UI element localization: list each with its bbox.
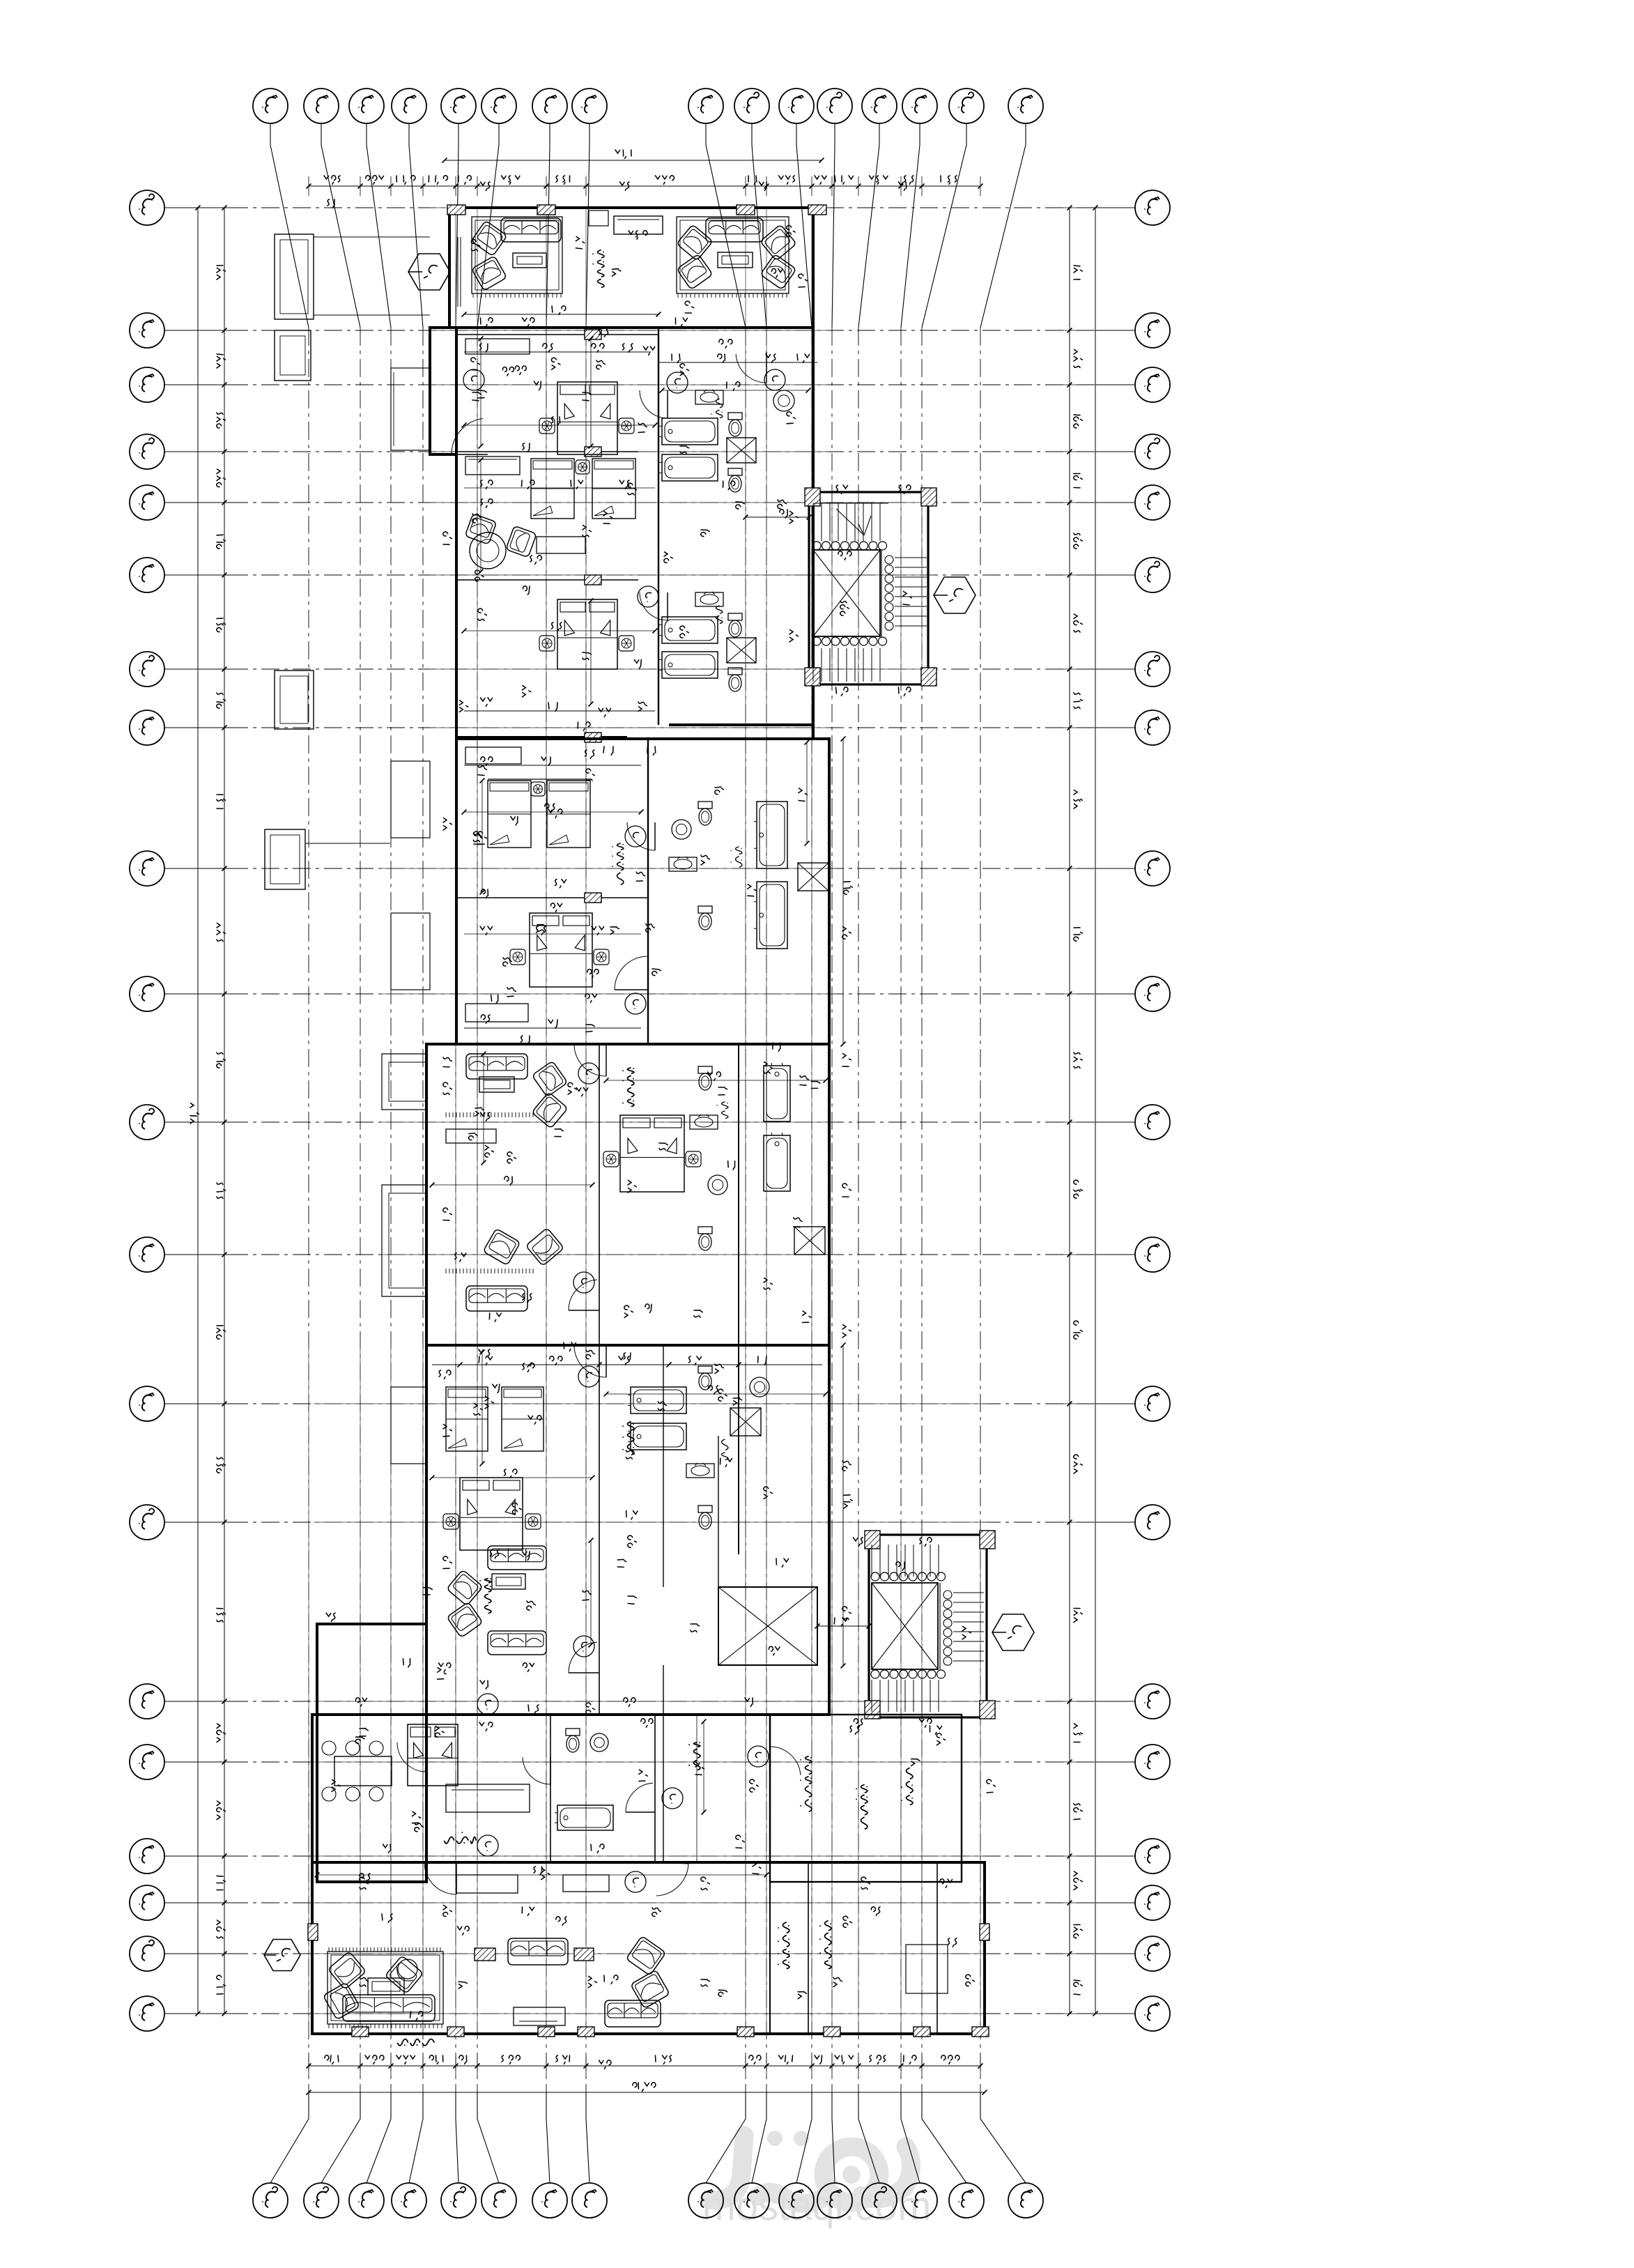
row leader right 1	[1095, 207, 1135, 208]
grid bubble column 9 (bottom)	[688, 2183, 723, 2218]
horizontal gridline row 7	[230, 668, 1095, 670]
bed lower suite1	[557, 599, 617, 669]
annotation extra 52	[833, 1977, 842, 1987]
long internal dim row (zone B)	[464, 487, 655, 489]
fill annotation	[471, 240, 479, 251]
bath strip suite3	[738, 1044, 739, 1345]
horizontal gridline row 10	[230, 993, 1095, 995]
corridor dim right	[842, 1183, 851, 1197]
planter connector row12	[305, 843, 390, 844]
row leader right 18	[1095, 1902, 1135, 1903]
dim value bottom 13	[904, 2055, 916, 2064]
gridline overlay	[858, 1535, 859, 2034]
reception sofa bottom	[343, 1995, 435, 2021]
dim 5.22	[719, 339, 732, 348]
row leader left 18	[164, 1902, 230, 1903]
fill annotation	[534, 381, 541, 390]
grid bubble column 14 (top)	[902, 89, 937, 123]
horizontal gridline row 6	[230, 574, 1095, 576]
fill annotation	[491, 995, 498, 1004]
leader bottom column 16	[980, 2092, 1026, 2183]
armchair sitting b	[532, 1092, 568, 1128]
hatched column suite1-a	[585, 330, 601, 339]
row leader right 14	[1095, 1522, 1135, 1523]
dim value right 7	[1074, 790, 1082, 809]
double bed suite4	[460, 1478, 523, 1550]
dim value right 4	[1074, 533, 1082, 549]
section hexagon S3	[992, 1614, 1034, 1650]
elevator shaft core1	[813, 550, 880, 636]
dims lobby	[382, 1914, 392, 1922]
annotation extra 67	[854, 1719, 863, 1727]
annotation 21	[360, 1729, 368, 1736]
fill annotation	[787, 412, 795, 424]
annotation extra 5	[481, 318, 493, 326]
tv console sitting	[446, 1129, 496, 1143]
label hammam 2	[711, 606, 723, 623]
lobby console 2	[563, 1875, 609, 1892]
row overlay	[380, 1121, 836, 1123]
grid bubble column 2 (top)	[304, 89, 339, 123]
bay window left suite4	[391, 1387, 426, 1464]
row overlay	[314, 1522, 987, 1523]
lobby sofa middle	[508, 1938, 568, 1965]
annotation extra 62	[899, 485, 911, 493]
annotation 11	[680, 626, 688, 638]
grid bubble row 9 (left)	[130, 851, 164, 886]
twin bed suite4 b	[502, 1387, 544, 1451]
grid bubble column 10 (bottom)	[734, 2183, 769, 2218]
door tag s2	[625, 826, 646, 847]
dim value left 8	[217, 924, 225, 942]
vertical gridline column 1	[308, 328, 309, 2092]
armoire suite2	[465, 1004, 528, 1022]
dim value left 14	[217, 1724, 225, 1742]
annotation 29	[736, 502, 744, 509]
door tag 1	[463, 369, 484, 390]
left wing zone E	[317, 1624, 426, 1882]
leader bottom column 10	[752, 2092, 766, 2183]
rug fringe row 1	[445, 1112, 447, 1117]
dim value left 12	[217, 1457, 225, 1473]
vertical gridline column 5	[455, 328, 456, 2092]
labels suite4	[623, 1422, 634, 1455]
row leader right 15	[1095, 1701, 1135, 1702]
grid bubble row 12 (right)	[1135, 1237, 1170, 1272]
fill annotation	[753, 1862, 761, 1874]
section hexagon S4 (left)	[264, 1940, 300, 1971]
bay window left suite2 lower	[391, 913, 430, 990]
dim chain bedroom1	[464, 351, 651, 353]
row leader right 11	[1095, 1121, 1135, 1123]
fill annotation	[530, 555, 541, 564]
annex labels	[445, 1832, 476, 1844]
double bed suite3	[620, 1115, 684, 1192]
door tag 3	[764, 369, 785, 390]
armchair sitting d	[483, 1229, 521, 1266]
annotation extra 39	[764, 1487, 772, 1499]
rug living east	[677, 217, 789, 293]
right overall dimension line	[1095, 208, 1096, 2014]
row leader right 7	[1095, 668, 1135, 670]
bath2 fixtures	[695, 592, 723, 606]
grid bubble column 1 (top)	[253, 89, 288, 123]
fill annotation	[424, 1588, 432, 1595]
outer wall: suite1 block	[456, 328, 813, 739]
watermark mostaql logo	[709, 2136, 911, 2204]
row overlay	[380, 993, 836, 995]
fill annotation	[794, 1218, 802, 1227]
dim core1 2.20	[838, 551, 851, 560]
gridline overlay	[585, 208, 587, 2034]
partition bath wall vertical	[658, 328, 659, 725]
grid bubble column 3 (top)	[349, 89, 384, 123]
leader top column 8	[586, 123, 589, 328]
leader top column 3	[367, 123, 391, 328]
annotation extra 24	[481, 1015, 490, 1023]
annotation extra 41	[523, 1551, 530, 1560]
annotation 26	[745, 1698, 753, 1706]
annotation 28	[624, 1698, 635, 1706]
row leader left 19	[164, 1953, 230, 1954]
annotation 14	[718, 1389, 727, 1401]
wardrobe row suite1	[465, 457, 520, 475]
fill annotation	[639, 1770, 647, 1782]
row overlay	[312, 1953, 985, 1954]
gridline overlay	[980, 1535, 981, 2034]
sofa living west	[501, 218, 561, 242]
annotation extra 0	[327, 199, 334, 208]
grid bubble column 3 (bottom)	[349, 2183, 384, 2218]
fill annotation	[911, 1759, 920, 1766]
row leader left 3	[164, 384, 230, 385]
annotation extra 37	[624, 1353, 631, 1361]
interior vertical dim	[480, 460, 481, 572]
horizontal gridline row 12	[230, 1254, 1095, 1255]
annotation 16	[599, 708, 611, 717]
annotation 2	[585, 750, 595, 758]
label doctor room	[801, 1756, 812, 1811]
annex door arcs	[550, 1756, 551, 1784]
horizontal gridline row 4	[230, 451, 1095, 452]
dim value right 9	[1074, 1052, 1082, 1068]
fill annotation	[685, 301, 693, 313]
grid bubble column 5 (top)	[441, 89, 476, 123]
fill annotation	[511, 817, 518, 825]
annotation 13	[718, 1087, 727, 1095]
armchair sitting c	[525, 1228, 564, 1266]
row leader left 20	[164, 2013, 230, 2014]
sink vanity bath1	[695, 390, 723, 404]
reception armchairs	[327, 1952, 366, 1990]
dim right 12.78	[844, 882, 852, 894]
fill annotation	[948, 1938, 957, 1947]
dim value right 16	[1074, 1871, 1082, 1890]
grid bubble row 10 (left)	[130, 976, 164, 1011]
nightstand s2-2	[510, 949, 525, 965]
dim value right 8	[1074, 928, 1082, 941]
corridor walls	[663, 1345, 664, 1587]
vertical gridline column 14	[900, 328, 902, 2092]
dim value right 15	[1074, 1804, 1082, 1820]
stair rail circles core1	[885, 555, 893, 564]
gridline overlay	[900, 1535, 902, 2034]
dim value top 6	[556, 176, 570, 184]
fill annotation	[490, 1550, 499, 1558]
annotation extra 42	[628, 1596, 636, 1604]
twin bed a suite2	[488, 781, 531, 848]
fill annotation	[403, 1659, 410, 1667]
annotation extra 23	[652, 969, 661, 976]
dim chain 9.65	[464, 710, 655, 712]
gridline overlay	[360, 1345, 361, 2034]
annotation extra 14	[701, 530, 709, 537]
door arc suite2 bath	[654, 822, 656, 850]
bath cluster suite4	[738, 1345, 739, 1554]
fill annotation	[636, 872, 645, 881]
gridline overlay	[390, 1345, 392, 2034]
dim 5.35 suite2	[548, 809, 562, 818]
spindle row bottom core1	[812, 637, 821, 645]
grid bubble row 4 (right)	[1135, 434, 1170, 469]
grid bubble row 4 (left)	[130, 434, 164, 469]
grid bubble row 5 (left)	[130, 485, 164, 520]
grid bubble row 8 (left)	[130, 710, 164, 745]
grid bubble row 16 (left)	[130, 1745, 164, 1779]
leader top column 11	[796, 123, 812, 328]
fill annotation	[413, 1811, 421, 1823]
annotation extra 36	[523, 1363, 534, 1372]
leader bottom column 12	[832, 2092, 835, 2183]
gridline overlay core1	[900, 492, 902, 684]
outer wall: lobby block	[312, 1862, 985, 2034]
grid bubble column 13 (bottom)	[862, 2183, 897, 2218]
dim value top 10	[815, 176, 826, 184]
dim value right 18	[1074, 1980, 1082, 1995]
annotation extra 53	[871, 1907, 880, 1915]
dining table left wing	[334, 1756, 392, 1786]
dim value bottom 0	[325, 2055, 339, 2064]
annex desk	[446, 1784, 530, 1812]
horizontal gridline row 9	[230, 868, 1095, 869]
toilet bath1	[728, 413, 742, 436]
desk suite1	[537, 537, 585, 553]
top overall dim 12.70	[445, 160, 822, 161]
fill annotation	[800, 1075, 808, 1085]
horizontal gridline row 5	[230, 502, 1095, 503]
annotation 32	[599, 328, 609, 337]
door tags lobby	[477, 1835, 498, 1856]
dim value left 16	[217, 1876, 225, 1890]
fill annotation	[617, 1559, 626, 1567]
fill annotation	[326, 1613, 335, 1621]
balcony rail suite3 lower	[382, 1185, 426, 1296]
interior vertical dim	[806, 742, 808, 843]
long internal dim row (zone C)	[464, 933, 641, 935]
rug living west	[472, 217, 562, 293]
fill annotation	[718, 1990, 727, 1996]
leader bottom column 14	[901, 2092, 920, 2183]
door arc suite1 entry	[452, 454, 488, 455]
leader bottom column 15	[922, 2092, 966, 2183]
annotation extra 61	[836, 485, 848, 493]
vertical gridline column 9	[745, 328, 746, 2092]
gridline overlay core1	[831, 492, 833, 684]
planter box left mid	[275, 330, 311, 381]
rug fringe row 2	[445, 1269, 447, 1273]
bathtub 2	[659, 454, 718, 481]
grid bubble column 16 (bottom)	[1008, 2183, 1043, 2218]
row leader right 17	[1095, 1855, 1135, 1857]
bed left wing	[408, 1724, 458, 1786]
dim value right 12	[1074, 1455, 1082, 1473]
wash basin bath1	[773, 390, 794, 411]
reception table	[368, 1978, 404, 1995]
fill annotation	[680, 364, 688, 376]
interior vertical dim	[590, 1540, 592, 1645]
fill annotation	[459, 700, 468, 712]
row leader left 5	[164, 502, 230, 503]
row overlay	[314, 1701, 987, 1702]
leader top column 6	[477, 123, 499, 328]
grid bubble row 19 (left)	[130, 1936, 164, 1971]
sitting area suite4	[488, 1546, 546, 1570]
dim value left 1	[217, 354, 225, 368]
dim value bottom 10	[815, 2055, 822, 2064]
armchair west 1	[471, 220, 507, 256]
corridor dim right	[842, 1607, 851, 1619]
lobby sofa lower	[605, 2000, 661, 2027]
annex partition 2	[654, 1715, 656, 1862]
fill annotation	[576, 1087, 588, 1096]
fill annotation	[568, 1082, 576, 1094]
annotation extra 34	[764, 1278, 772, 1290]
nightstand 4	[539, 636, 555, 651]
row leader right 4	[1095, 451, 1135, 452]
interior horizontal dim	[464, 424, 655, 426]
dim value bottom 3	[429, 2055, 442, 2064]
partition mid suite1	[456, 451, 638, 452]
fill annotation	[733, 1398, 741, 1406]
twin bed suite4 a	[446, 1387, 488, 1451]
door tag 4	[638, 586, 658, 607]
fill annotation	[473, 833, 481, 842]
annotation 8	[628, 1535, 636, 1547]
armchair east 1	[677, 224, 713, 261]
annotation extra 6	[523, 318, 534, 326]
chair round suite1	[470, 532, 506, 569]
balcony rail suite3 upper	[382, 1054, 426, 1110]
interior horizontal dim	[606, 1080, 826, 1081]
grid bubble column 8 (bottom)	[572, 2183, 607, 2218]
row leader right 8	[1095, 727, 1135, 728]
annotation extra 38	[715, 1364, 723, 1374]
annotation extra 68	[920, 1719, 932, 1727]
grid bubble row 3 (left)	[130, 367, 164, 402]
annotation extra 50	[652, 1908, 661, 1917]
door arc lobby 2	[655, 1862, 688, 1864]
spindle row top core2	[871, 1572, 879, 1581]
fill annotation	[645, 1304, 652, 1312]
leader top column 16	[980, 123, 1026, 328]
gridline overlay	[831, 1535, 833, 2034]
fill annotation	[720, 1458, 732, 1466]
row leader right 12	[1095, 1254, 1135, 1255]
gridline overlay	[766, 208, 767, 2034]
grid bubble column 6 (bottom)	[481, 2183, 516, 2218]
leader top column 12	[832, 123, 835, 328]
gridline overlay	[546, 208, 547, 2034]
grid bubble row 7 (right)	[1135, 652, 1170, 687]
row overlay	[430, 330, 829, 331]
nightstand 1	[539, 418, 555, 434]
row leader right 2	[1095, 330, 1135, 331]
sofa sitting top	[466, 1054, 527, 1079]
annotation extra 33	[694, 1310, 702, 1317]
grid bubble column 16 (top)	[1008, 89, 1043, 123]
dim value bottom 7	[656, 2055, 672, 2064]
annotation 25	[776, 1558, 789, 1567]
vertical gridline column 12	[831, 328, 833, 2092]
row leader left 4	[164, 451, 230, 452]
doctor room walls	[770, 1715, 962, 1882]
planter box left row14	[275, 671, 314, 729]
gridline overlay	[811, 208, 812, 2034]
row overlay	[312, 1855, 985, 1857]
dim value bottom 6	[556, 2055, 570, 2064]
annotation extra 28	[659, 1143, 668, 1150]
dim value right 14	[1074, 1724, 1082, 1742]
small cabinet	[589, 210, 608, 226]
dim value right 3	[1074, 474, 1082, 488]
vertical gridline column 6	[477, 328, 478, 2092]
grid bubble row 18 (right)	[1135, 1885, 1170, 1920]
leader bottom column 9	[706, 2092, 746, 2183]
row leader left 1	[164, 207, 230, 208]
annotation extra 17	[578, 722, 590, 730]
planter connector walls	[314, 236, 430, 238]
row leader left 2	[164, 330, 230, 331]
dim value bottom 4	[459, 2055, 467, 2064]
dim value top 7	[656, 176, 675, 184]
dim value bottom 5	[502, 2055, 520, 2064]
grid bubble row 13 (right)	[1135, 1386, 1170, 1421]
dim value top 1	[366, 176, 384, 184]
dim value left 5	[217, 618, 225, 632]
stair flight bottom core1	[812, 648, 814, 682]
bathtub 1	[659, 418, 718, 445]
gridline overlay core1	[858, 492, 859, 684]
vertical gridline column 3	[390, 328, 392, 2092]
nightstand 5	[619, 636, 634, 651]
annotation extra 43	[439, 1663, 451, 1671]
hatched column suite1-b	[585, 447, 601, 457]
grid bubble row 13 (left)	[130, 1386, 164, 1421]
row leader left 6	[164, 574, 230, 576]
dim value left 3	[217, 469, 225, 487]
annotation extra 57	[410, 2012, 423, 2020]
interior vertical dim	[480, 339, 481, 446]
dim value top 2	[396, 176, 415, 184]
top dimension chain	[309, 185, 980, 187]
grid bubble column 15 (top)	[949, 89, 984, 123]
interior vertical dim	[703, 1722, 704, 1812]
annex partition 1	[550, 1715, 551, 1862]
armchair sitting a	[532, 1061, 567, 1097]
grid bubble column 7 (top)	[532, 89, 567, 123]
hatched column top-4	[808, 205, 826, 215]
grid bubble row 20 (left)	[130, 1996, 164, 2031]
